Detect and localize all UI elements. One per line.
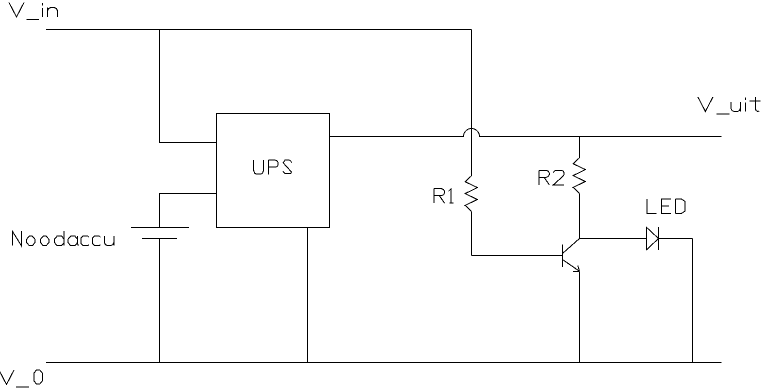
wire collector node to LED (580, 238, 648, 240)
diode LED triangle (647, 227, 659, 250)
label Noodaccu (12, 231, 114, 246)
label V_0 (0, 370, 42, 387)
wire vertical to battery top (159, 194, 161, 228)
wire LED to return (659, 238, 693, 240)
label UPS (254, 160, 292, 175)
battery Noodaccu plate short (142, 238, 177, 240)
transistor Q1 collector (563, 239, 580, 254)
wire UPS output to V_uit with hop over vertical (330, 129, 722, 137)
wire V_in drop to R1 (471, 30, 473, 176)
diode LED cathode bar (658, 227, 660, 250)
label R1 (434, 189, 453, 204)
UPS block U1 (217, 114, 330, 228)
transistor Q1 emitter with arrow (563, 260, 580, 272)
battery Noodaccu plate long (131, 227, 189, 229)
wire bottom rail V_0 (46, 362, 722, 364)
wire emitter to bottom rail (579, 271, 581, 362)
wire base horizontal (472, 255, 563, 257)
wire top rail V_in (46, 29, 472, 31)
wire UPS bottom pin to rail (307, 228, 309, 363)
label V_uit (698, 97, 761, 114)
label LED (647, 199, 685, 214)
wire vertical from top rail to UPS input (159, 30, 161, 143)
resistor R1 (465, 176, 477, 212)
wire LED return vertical to bottom rail (692, 239, 694, 363)
wire R2 to collector node (579, 193, 581, 238)
wire battery to bottom rail (159, 239, 161, 363)
wire UPS input horizontal (159, 142, 217, 144)
resistor R2 (573, 158, 585, 194)
label R2 (539, 170, 564, 185)
wire R1 to base (471, 211, 473, 255)
wire R2 top connection (579, 137, 581, 158)
label V_in (9, 3, 57, 20)
transistor Q1 base bar (562, 245, 564, 268)
wire battery feed horizontal from UPS (159, 193, 217, 195)
